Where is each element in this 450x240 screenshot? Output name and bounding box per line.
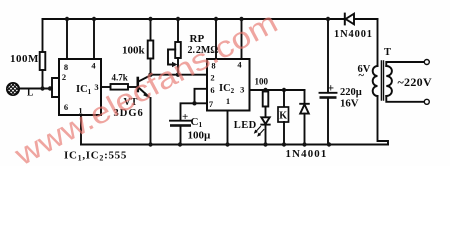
wire node to C1: [181, 103, 195, 120]
potentiometer RP 2.2M: [177, 19, 179, 42]
junction dot relay ground: [282, 142, 286, 146]
value label 1N4001 top: [334, 29, 373, 40]
label RP: [190, 33, 205, 45]
pin 3 label: [94, 82, 98, 92]
pin 6 label: [210, 85, 214, 95]
wire 100 to LED: [265, 107, 267, 118]
svg-text:L: L: [27, 89, 33, 99]
svg-text:IC1,IC2:555: IC1,IC2:555: [64, 150, 127, 163]
svg-text:LED: LED: [234, 120, 257, 131]
transistor Q VT 3DG6: [137, 78, 140, 91]
label T: [384, 47, 391, 58]
svg-text:~220V: ~220V: [398, 75, 432, 89]
resistor R 4.7k: [111, 84, 129, 90]
op-amp IC1 555 box: [59, 59, 101, 115]
wire IC1 pin1 to ground rail: [80, 115, 82, 145]
wire IC2 pin3 output: [250, 89, 305, 91]
resistor R 100M: [40, 52, 46, 70]
label 220V output: [398, 75, 432, 89]
svg-text:1N4001: 1N4001: [286, 148, 328, 160]
svg-text:6: 6: [210, 85, 214, 95]
transformer T primary winding: [373, 66, 378, 96]
relay K: [283, 90, 285, 107]
junction dot pin8 rail: [65, 17, 69, 21]
junction dot IC2 pin8 rail: [214, 17, 218, 21]
value label 100: [255, 77, 269, 87]
svg-text:6: 6: [64, 102, 68, 112]
svg-text:+: +: [328, 83, 335, 95]
polarity plus C1: [182, 111, 188, 123]
junction dot relay: [282, 88, 286, 92]
terminal top: [424, 60, 429, 65]
value label 1N4001: [286, 148, 328, 160]
junction dot collector node: [148, 73, 152, 77]
svg-text:16V: 16V: [340, 98, 359, 110]
resistor R 100k: [148, 41, 154, 59]
value label 220u: [340, 87, 362, 98]
wire secondary bottom to terminal: [386, 96, 424, 102]
junction dot C1: [178, 142, 182, 146]
wire 100k to rail: [150, 19, 152, 41]
svg-text:3: 3: [94, 82, 98, 92]
label C1: [191, 116, 203, 129]
node junction bracket: [48, 86, 52, 90]
label LED: [234, 120, 257, 131]
svg-text:T: T: [384, 47, 391, 58]
node junction 100M/L: [40, 86, 44, 90]
svg-text:C1: C1: [191, 116, 203, 129]
wire 4.7k to base: [128, 86, 137, 88]
wire IC1 pin3 output: [101, 86, 111, 88]
wire IC2 pin8 to rail: [215, 19, 217, 59]
pin 1 label: [226, 96, 230, 106]
value label 100M: [10, 53, 39, 65]
diode D 1N4001 top: [344, 14, 346, 25]
junction dot emitter: [148, 142, 152, 146]
transformer T secondary winding: [386, 66, 392, 96]
svg-text:100M: 100M: [10, 53, 39, 65]
label IC2: [219, 83, 235, 95]
wire 100M lower lead: [42, 70, 44, 89]
value label 16V: [340, 98, 359, 110]
svg-text:~: ~: [359, 71, 365, 82]
LED D1: [261, 117, 269, 124]
polarity plus 220u: [328, 83, 335, 95]
junction dot pin4 rail: [92, 17, 96, 21]
wire IC2 pins 6,7 bracket: [195, 89, 208, 104]
wire emitter to ground rail: [150, 98, 152, 145]
junction dot diode ground: [302, 142, 306, 146]
svg-text:3: 3: [240, 85, 244, 95]
wire IC2 pin4 to rail: [241, 19, 243, 59]
capacitor C 220u: [327, 19, 329, 93]
pin 4 label: [91, 61, 96, 71]
wire IC1 pin4 to rail: [93, 19, 95, 59]
junction dot 100k rail: [148, 17, 152, 21]
wire top supply rail: [43, 18, 378, 20]
label 3DG6: [114, 108, 144, 119]
value label 2.2M: [188, 45, 219, 56]
terminal bottom: [424, 99, 429, 104]
junction dot IC2 pin4 rail: [239, 17, 243, 21]
value label 100u: [188, 130, 212, 142]
wire bracket pins 2,6 of IC1: [52, 78, 59, 97]
junction dot IC2 pin1: [225, 142, 229, 146]
svg-text:2: 2: [62, 72, 66, 82]
label L: [27, 89, 33, 99]
transformer core: [381, 61, 383, 100]
pin 7 label: [209, 99, 214, 109]
pin 1 label: [78, 106, 82, 116]
diode D 1N4001 freewheel: [304, 90, 306, 104]
pin 2 label: [62, 72, 66, 82]
pin 2 label: [210, 72, 214, 82]
svg-text:100: 100: [255, 77, 269, 87]
svg-text:100k: 100k: [122, 45, 146, 57]
wire L to IC1 input node: [19, 88, 52, 90]
wire IC2 pin1 to ground rail: [227, 111, 229, 145]
resistor R 100: [265, 90, 267, 92]
timer IC2 555 box: [207, 59, 250, 111]
pin 6 label: [64, 102, 68, 112]
svg-text:1: 1: [226, 96, 230, 106]
wire primary to ground rail: [378, 96, 389, 145]
svg-text:220µ: 220µ: [340, 87, 362, 98]
junction dot 100ohm: [263, 88, 267, 92]
caption IC1 IC2 555: [64, 150, 127, 163]
wire secondary top to terminal: [386, 62, 424, 66]
svg-text:8: 8: [64, 62, 68, 72]
wire node to IC2 pin2: [151, 74, 208, 76]
wire left drop to 100M: [42, 19, 44, 52]
label 6V: [358, 64, 371, 82]
svg-text:100µ: 100µ: [188, 130, 212, 142]
pin 8 label: [211, 61, 215, 71]
value label 4.7k: [112, 73, 128, 83]
svg-text:2: 2: [210, 72, 214, 82]
wire 100k lower lead: [150, 59, 152, 75]
wire right rail down to transformer: [377, 19, 379, 66]
wire bottom ground rail: [81, 144, 388, 146]
junction dot 220u ground: [327, 142, 331, 146]
pin 4 label: [237, 60, 242, 70]
wire IC1 pin8 to rail: [66, 19, 68, 59]
svg-text:K: K: [279, 111, 287, 122]
junction dot LED: [263, 142, 267, 146]
label IC1: [76, 84, 92, 96]
label VT: [124, 97, 138, 108]
svg-text:+: +: [182, 111, 188, 123]
photoresistor L: [7, 83, 19, 95]
pin 3 label: [240, 85, 244, 95]
capacitor C1 100u: [170, 120, 191, 122]
svg-text:1N4001: 1N4001: [334, 29, 373, 40]
junction dot pin7 node: [192, 101, 196, 105]
value label 100k: [122, 45, 146, 57]
pin 8 label: [64, 62, 68, 72]
